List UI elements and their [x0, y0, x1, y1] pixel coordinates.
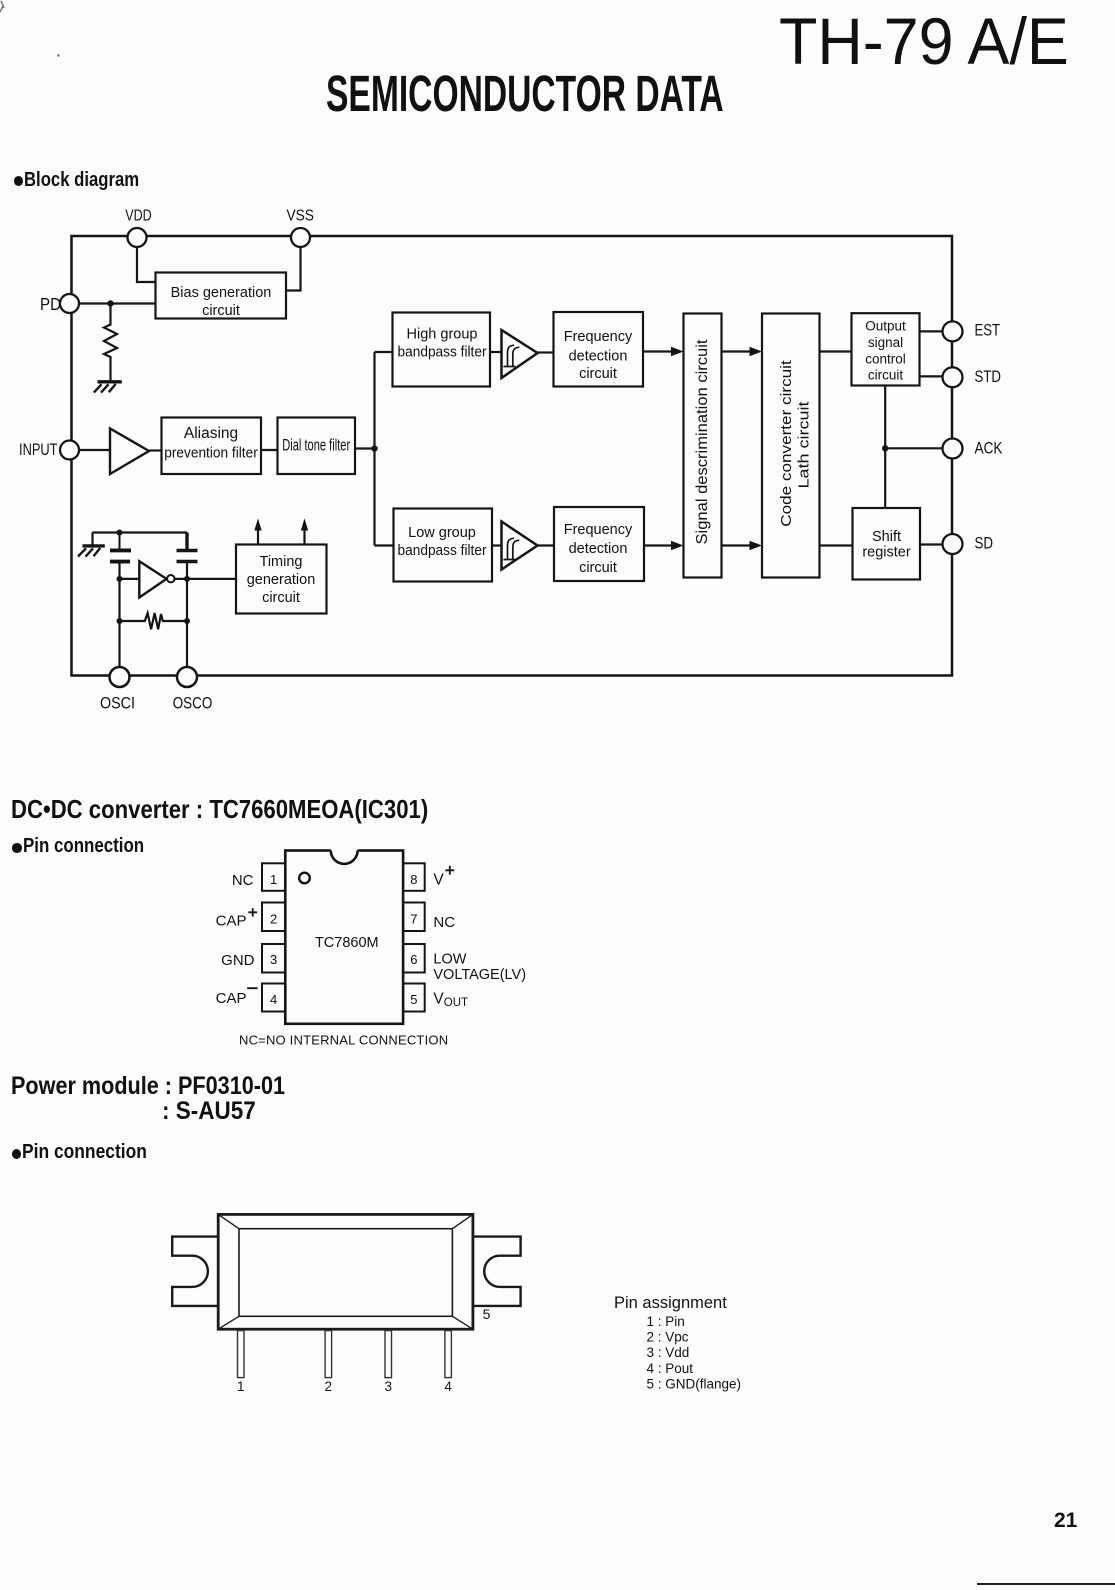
wire PD to bias box	[79, 302, 156, 304]
svg-text:VDD: VDD	[125, 208, 152, 225]
arrowhead timing up 1	[254, 519, 261, 531]
limiter L2	[502, 522, 538, 570]
osc left vertical wire	[118, 563, 120, 667]
svg-text:3 : Vdd: 3 : Vdd	[647, 1345, 690, 1360]
osc right vertical wire	[186, 563, 188, 667]
svg-text:control: control	[865, 352, 906, 367]
page number 21	[1054, 1510, 1077, 1531]
wire code converter to output signal control	[820, 350, 852, 352]
svg-text:circuit: circuit	[579, 560, 617, 576]
wire limiter to freq detection	[538, 351, 554, 353]
block frequency detection circuit (high)	[554, 312, 644, 387]
pin box 2	[262, 903, 285, 932]
heading S-AU57	[162, 1099, 256, 1124]
pin box 1	[262, 863, 285, 891]
svg-text:ACK: ACK	[975, 438, 1004, 457]
bottom edge mark	[977, 1583, 1115, 1585]
outer boundary box	[72, 236, 953, 676]
svg-text:LOW: LOW	[433, 952, 466, 968]
pin box 8	[403, 863, 425, 891]
arrowhead into code converter (low)	[750, 541, 763, 550]
svg-text:NC=NO INTERNAL CONNECTION: NC=NO INTERNAL CONNECTION	[239, 1033, 448, 1048]
svg-text:Lath circuit: Lath circuit	[796, 401, 813, 489]
svg-text:OSCO: OSCO	[173, 695, 213, 713]
terminal PD	[60, 294, 79, 313]
arrowhead into code converter (high)	[750, 347, 763, 356]
svg-text:PD: PD	[40, 294, 61, 314]
svg-text:3: 3	[270, 952, 277, 967]
svg-text:detection: detection	[569, 349, 628, 365]
svg-text:generation: generation	[247, 572, 316, 588]
svg-text:circuit: circuit	[868, 368, 904, 383]
svg-text:circuit: circuit	[579, 366, 617, 382]
svg-text:signal: signal	[868, 335, 903, 350]
svg-text:V: V	[433, 871, 444, 888]
wire dial tone filter to node A	[355, 447, 375, 449]
junction dot resistor right	[184, 618, 190, 624]
wire to SD	[920, 543, 943, 545]
terminal VSS	[291, 228, 310, 247]
capacitor C1	[119, 533, 121, 550]
block bias generation circuit	[156, 273, 287, 319]
block code converter circuit	[762, 314, 820, 578]
arrow up 1 from timing	[257, 529, 259, 545]
block dial tone filter	[278, 418, 356, 475]
block signal descrimination circuit	[684, 314, 722, 578]
resistor R2 (osc feedback)	[120, 613, 188, 629]
svg-text:TC7860M: TC7860M	[315, 935, 379, 951]
svg-text:NC: NC	[232, 872, 254, 889]
wire to ACK	[885, 447, 943, 449]
IC package TC7860M body	[285, 851, 403, 1024]
block timing generation circuit	[236, 545, 327, 614]
pin 4 lead	[445, 1331, 452, 1378]
pin box 5	[403, 984, 425, 1012]
block frequency detection circuit (low)	[554, 507, 644, 581]
junction dot resistor left	[117, 618, 123, 624]
arrowhead timing up 2	[301, 519, 308, 531]
svg-text:1: 1	[237, 1379, 245, 1394]
terminal STD	[943, 367, 963, 387]
svg-text:4 : Pout: 4 : Pout	[647, 1361, 694, 1376]
svg-text:Bias generation: Bias generation	[171, 285, 272, 301]
block low group bandpass filter	[394, 509, 493, 582]
terminal OSCO	[177, 667, 197, 687]
svg-text:OUT: OUT	[444, 997, 468, 1009]
limiter L1	[502, 330, 538, 378]
wire freq det low to signal discrimination (arrow)	[644, 544, 672, 546]
junction dot inverter input	[117, 576, 123, 582]
wire inverter output to timing box	[175, 578, 237, 580]
amplifier A1	[110, 429, 149, 475]
pin 1 lead	[238, 1331, 245, 1378]
capacitor C2	[177, 533, 198, 562]
notch	[331, 837, 358, 864]
wire to STD	[919, 375, 943, 377]
junction dot inverter output	[184, 576, 190, 582]
heading DC-DC converter	[11, 796, 428, 822]
osc top wire	[93, 533, 188, 545]
wire code converter to shift register	[820, 544, 853, 546]
title TH-79 A/E	[779, 8, 1069, 74]
svg-text:V: V	[433, 990, 444, 1007]
svg-text:STD: STD	[975, 367, 1002, 386]
svg-text:VOLTAGE(LV): VOLTAGE(LV)	[433, 967, 526, 983]
heading Power module	[11, 1074, 285, 1099]
pin box 7	[403, 903, 425, 932]
pin box 6	[403, 944, 425, 973]
junction dot ACK	[882, 445, 888, 451]
svg-text:bandpass filter: bandpass filter	[398, 543, 487, 559]
arrowhead into signal discrimination (low)	[671, 541, 684, 550]
wire signal discrimination to code converter (arrows)	[722, 352, 751, 546]
svg-text:Frequency: Frequency	[564, 329, 633, 345]
svg-text:VSS: VSS	[286, 208, 314, 225]
svg-text:5: 5	[410, 992, 417, 1007]
svg-text:4: 4	[444, 1379, 452, 1394]
svg-text:2 : Vpc: 2 : Vpc	[647, 1329, 689, 1344]
pin 3 lead	[385, 1331, 392, 1378]
inverter bubble	[167, 575, 174, 582]
svg-text:1: 1	[270, 872, 277, 887]
svg-text:Pin assignment: Pin assignment	[614, 1294, 727, 1312]
wire inverter input	[120, 578, 140, 580]
svg-text:circuit: circuit	[202, 303, 240, 319]
pin box 3	[262, 944, 285, 973]
wire limiter to freq detection (low)	[538, 544, 555, 546]
svg-text:6: 6	[410, 952, 417, 967]
svg-text:circuit: circuit	[262, 590, 300, 606]
inverter U1	[139, 561, 166, 597]
svg-text:3: 3	[384, 1379, 392, 1394]
resistor R1 (PD pulldown)	[104, 304, 117, 382]
terminal EST	[943, 321, 963, 341]
arrowhead into signal discrimination (high)	[671, 347, 684, 356]
svg-text:5 : GND(flange): 5 : GND(flange)	[647, 1377, 742, 1392]
svg-text:Signal descrimination circuit: Signal descrimination circuit	[694, 339, 711, 545]
svg-text:2: 2	[325, 1379, 333, 1394]
svg-text:detection: detection	[569, 541, 628, 557]
arrow up 2 from timing	[303, 529, 305, 545]
terminal VDD	[128, 228, 147, 247]
svg-text:register: register	[862, 545, 911, 561]
svg-text:Aliasing: Aliasing	[184, 425, 238, 442]
block aliasing prevention filter	[162, 418, 262, 475]
wire high bpf to limiter	[490, 351, 502, 353]
svg-text:CAP: CAP	[216, 990, 247, 1007]
terminal OSCI	[110, 667, 130, 687]
block high group bandpass filter	[393, 313, 491, 387]
left flange	[172, 1237, 218, 1306]
wire to EST	[919, 330, 943, 332]
junction dot node A	[371, 445, 377, 451]
section label Pin connection 1	[12, 843, 22, 853]
wire node A split to bandpass filters	[375, 352, 393, 546]
svg-text:GND: GND	[221, 952, 255, 969]
svg-text:Low group: Low group	[408, 525, 476, 541]
pin 1 indicator	[299, 873, 310, 884]
terminal ACK	[943, 439, 963, 459]
section label Pin connection 2	[12, 1149, 22, 1160]
power module outer body	[218, 1214, 473, 1329]
svg-text:bandpass filter: bandpass filter	[398, 345, 487, 361]
svg-text:prevention filter: prevention filter	[164, 445, 258, 462]
wire aliasing to dial tone filter	[261, 449, 278, 451]
svg-text:Output: Output	[865, 319, 906, 334]
power module inner face	[239, 1229, 452, 1317]
svg-text:4: 4	[270, 992, 277, 1007]
scan speck top-left	[0, 0, 70, 70]
title SEMICONDUCTOR DATA	[326, 68, 724, 119]
svg-text:Timing: Timing	[260, 554, 303, 570]
wire VDD to bias box	[137, 247, 156, 282]
pin box 4	[262, 984, 285, 1012]
svg-text:High group: High group	[407, 327, 478, 343]
svg-text:Code converter circuit: Code converter circuit	[778, 359, 795, 526]
ground (osc)	[83, 544, 105, 547]
svg-text:8: 8	[410, 872, 417, 887]
terminal SD	[943, 534, 963, 554]
svg-text:2: 2	[270, 912, 277, 927]
block output signal control circuit	[852, 313, 920, 385]
svg-text:CAP: CAP	[216, 913, 247, 930]
pin 2 lead	[325, 1331, 332, 1378]
svg-text:1 : Pin: 1 : Pin	[647, 1314, 685, 1329]
svg-text:INPUT: INPUT	[19, 440, 58, 459]
wire INPUT to amp	[79, 449, 110, 451]
svg-text:5: 5	[483, 1306, 491, 1322]
svg-text:Dial tone filter: Dial tone filter	[282, 437, 350, 455]
ground (PD resistor)	[98, 380, 122, 383]
svg-text:SD: SD	[975, 534, 994, 553]
block shift register	[853, 508, 921, 580]
svg-text:EST: EST	[975, 321, 1001, 340]
section label Block diagram	[14, 176, 24, 187]
right flange	[473, 1237, 521, 1306]
svg-text:Frequency: Frequency	[564, 522, 633, 538]
svg-text:OSCI: OSCI	[100, 695, 135, 713]
wire freq det to signal discrimination (arrow)	[643, 350, 672, 352]
wire output control to shift register	[884, 386, 886, 509]
junction dot PD	[107, 300, 113, 306]
terminal INPUT	[60, 441, 79, 460]
bevel edges	[218, 1214, 473, 1329]
wire low bpf to limiter	[492, 544, 502, 546]
svg-text:7: 7	[410, 912, 417, 927]
svg-text:Shift: Shift	[872, 529, 901, 545]
wire VSS to bias box	[286, 247, 301, 291]
junction dot osc top	[117, 530, 123, 536]
wire amp to aliasing filter	[149, 449, 162, 451]
svg-text:NC: NC	[433, 914, 455, 931]
